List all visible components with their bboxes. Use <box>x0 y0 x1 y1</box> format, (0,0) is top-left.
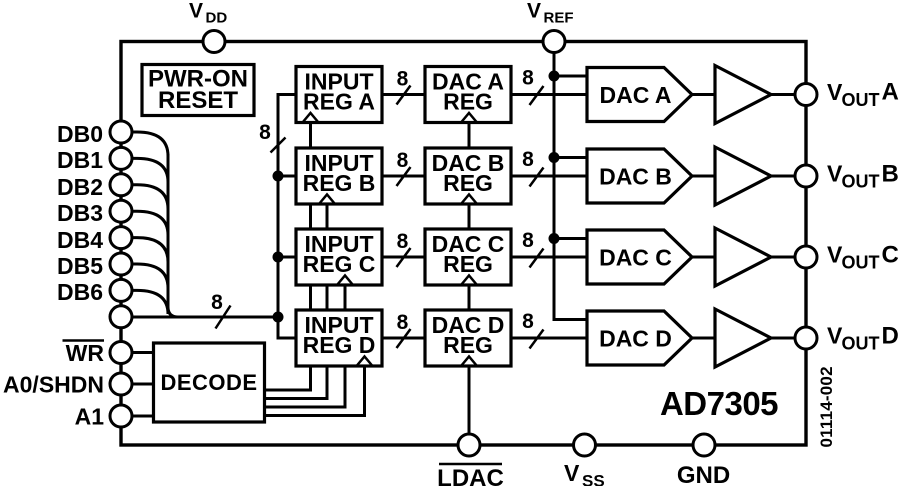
svg-text:B: B <box>882 161 899 188</box>
pin VOUTB <box>795 165 817 187</box>
svg-text:OUT: OUT <box>842 90 880 110</box>
clock pin DAC D REG <box>461 357 477 367</box>
svg-text:RESET: RESET <box>158 87 238 114</box>
svg-text:A: A <box>882 79 899 106</box>
wire 8-bit data bus from input pin <box>132 316 278 319</box>
bus width slash on data bus <box>216 306 231 329</box>
wire bus drop to INPUT REG D <box>278 317 296 338</box>
svg-text:LDAC: LDAC <box>437 465 504 486</box>
svg-text:8: 8 <box>522 310 534 333</box>
wire bus branch to INPUT REG B <box>278 175 296 178</box>
wire DB3 to data bus <box>132 211 168 235</box>
clock pin DAC C REG <box>461 276 477 286</box>
pin A1 <box>110 405 132 427</box>
pin VREF <box>543 31 565 53</box>
pin DB3 <box>110 200 132 222</box>
svg-text:REG: REG <box>443 89 493 115</box>
bus slash INPUT REG D to DAC D REG <box>397 329 411 348</box>
pin DB5 <box>110 253 132 275</box>
wire data-bus vertical drop <box>168 154 178 317</box>
svg-text:OUT: OUT <box>842 253 880 273</box>
svg-text:DB5: DB5 <box>57 253 103 279</box>
clock pin INPUT REG D <box>357 357 373 367</box>
wire VREF vertical net <box>554 42 587 320</box>
node VREF junction at DAC A <box>549 71 560 82</box>
pin DB1 <box>110 147 132 169</box>
svg-text:DB0: DB0 <box>57 121 103 147</box>
svg-text:REG A: REG A <box>303 89 375 115</box>
svg-text:8: 8 <box>259 121 271 144</box>
svg-text:DB2: DB2 <box>57 174 103 200</box>
svg-text:AD7305: AD7305 <box>660 385 778 422</box>
wire VREF branch to DAC C <box>554 237 587 240</box>
pin VOUTC <box>795 246 817 268</box>
bus width slash on riser <box>271 138 286 153</box>
wire LDAC riser to DAC REG clocks <box>468 123 471 446</box>
svg-text:V: V <box>189 0 203 23</box>
wire DAC B REG to DAC B <box>511 175 587 178</box>
svg-text:REG: REG <box>443 332 493 358</box>
register U2 INPUT REG B <box>296 148 382 204</box>
wire DB6 to data bus <box>132 290 168 314</box>
pin DB7 unlabeled <box>110 306 132 328</box>
bus slash INPUT REG B to DAC B REG <box>397 167 411 186</box>
clock pin INPUT REG C <box>337 276 353 286</box>
bus slash DAC B REG to DAC B <box>530 168 544 187</box>
wire INPUT REG B to DAC B REG <box>382 175 425 178</box>
wire VREF branch to DAC B <box>554 156 587 159</box>
wire WR pin to DECODE <box>132 351 154 354</box>
decoder block DECODE <box>154 343 265 422</box>
pin GND <box>693 434 715 456</box>
wire DAC D to buffer D <box>692 337 715 340</box>
wire DAC D REG to DAC D <box>511 337 587 340</box>
register U8 DAC D REG <box>425 310 511 366</box>
wire DECODE clock out to INPUT REG A <box>265 123 311 391</box>
svg-text:V: V <box>527 0 541 23</box>
bus slash DAC A REG to DAC A <box>530 86 544 105</box>
wire DB5 to data bus <box>132 264 168 288</box>
svg-text:REG D: REG D <box>303 332 376 358</box>
svg-text:8: 8 <box>397 230 409 253</box>
wire DAC B to buffer B <box>692 175 715 178</box>
svg-text:8: 8 <box>522 229 534 252</box>
wire DB2 to data bus <box>132 185 168 209</box>
svg-text:8: 8 <box>397 311 409 334</box>
svg-text:REG C: REG C <box>303 251 376 277</box>
pin VDD <box>203 31 225 53</box>
wire DB1 to data bus <box>132 158 168 182</box>
wire VREF branch to DAC A <box>554 75 587 78</box>
svg-text:DD: DD <box>206 10 228 27</box>
wire bus riser up to INPUT REG A <box>278 95 296 318</box>
svg-text:DAC B: DAC B <box>599 164 672 190</box>
pin DB6 <box>110 279 132 301</box>
wire A0/SHDN pin to DECODE <box>132 383 154 386</box>
svg-text:DAC C: DAC C <box>599 245 672 271</box>
pin VOUTD <box>795 327 817 349</box>
svg-text:GND: GND <box>677 462 730 486</box>
svg-text:REG B: REG B <box>303 170 376 196</box>
svg-text:REG: REG <box>443 251 493 277</box>
wire buffer C to VOUTC pin <box>771 256 795 259</box>
clock pin DAC B REG <box>461 195 477 205</box>
wire DAC A to buffer A <box>692 93 715 96</box>
svg-text:8: 8 <box>397 149 409 172</box>
wire DB0 to data bus <box>132 132 168 156</box>
pin DB0 <box>110 121 132 143</box>
bus slash DAC C REG to DAC C <box>530 249 544 268</box>
wire DECODE clock out to INPUT REG C <box>265 285 346 407</box>
pin VOUTA <box>795 84 817 106</box>
pin VSS <box>574 434 596 456</box>
op-amp buffer A <box>715 66 771 124</box>
bus slash INPUT REG C to DAC C REG <box>397 248 411 267</box>
wire DECODE clock out to INPUT REG D <box>265 366 365 416</box>
wire DB4 to data bus <box>132 238 168 262</box>
node bus junction at bus corner <box>273 312 284 323</box>
svg-text:DB1: DB1 <box>57 147 103 173</box>
node VREF junction at DAC C <box>549 233 560 244</box>
register U1 INPUT REG A <box>296 67 382 123</box>
node bus junction at INPUT REG C <box>273 252 284 263</box>
clock pin INPUT REG B <box>319 195 335 205</box>
wire INPUT REG C to DAC C REG <box>382 256 425 259</box>
svg-text:8: 8 <box>397 68 409 91</box>
svg-text:C: C <box>882 242 899 269</box>
svg-text:D: D <box>882 323 899 350</box>
register U6 DAC B REG <box>425 148 511 204</box>
power-on reset block <box>142 65 254 116</box>
pin LDAC <box>458 434 480 456</box>
wire buffer B to VOUTB pin <box>771 175 795 178</box>
svg-text:DB4: DB4 <box>57 227 103 253</box>
register U7 DAC C REG <box>425 229 511 285</box>
wire INPUT REG D to DAC D REG <box>382 337 425 340</box>
node VREF junction at DAC B <box>549 152 560 163</box>
svg-text:8: 8 <box>522 67 534 90</box>
wire INPUT REG A to DAC A REG <box>382 93 425 96</box>
node bus junction at INPUT REG B <box>273 171 284 182</box>
svg-text:8: 8 <box>211 291 223 314</box>
wire DAC C to buffer C <box>692 256 715 259</box>
svg-text:8: 8 <box>522 148 534 171</box>
op-amp buffer D <box>715 309 771 367</box>
svg-text:01114-002: 01114-002 <box>817 366 836 447</box>
register U3 INPUT REG C <box>296 229 382 285</box>
svg-text:A0/SHDN: A0/SHDN <box>3 372 104 398</box>
wire DAC A REG to DAC A <box>511 93 587 96</box>
op-amp buffer B <box>715 147 771 205</box>
pin DB4 <box>110 227 132 249</box>
wire A1 pin to DECODE <box>132 415 154 418</box>
clock pin DAC A REG <box>461 113 477 123</box>
svg-text:DECODE: DECODE <box>160 370 257 395</box>
svg-text:OUT: OUT <box>842 172 880 192</box>
svg-text:DAC A: DAC A <box>600 82 672 108</box>
converter DAC C <box>587 230 692 284</box>
clock pin INPUT REG A <box>303 113 319 123</box>
svg-text:DAC D: DAC D <box>599 326 672 352</box>
svg-text:REF: REF <box>544 10 574 27</box>
chip body outline <box>121 42 806 446</box>
pin A0/SHDN <box>110 373 132 395</box>
svg-text:SS: SS <box>582 472 605 486</box>
wire DAC C REG to DAC C <box>511 256 587 259</box>
svg-text:DB6: DB6 <box>57 279 103 305</box>
wire bus branch to INPUT REG C <box>278 256 296 259</box>
svg-text:WR: WR <box>66 340 105 366</box>
svg-text:REG: REG <box>443 170 493 196</box>
wire buffer D to VOUTD pin <box>771 337 795 340</box>
wire DECODE clock out to INPUT REG B <box>265 204 328 399</box>
pin DB2 <box>110 174 132 196</box>
bus slash DAC D REG to DAC D <box>530 330 544 349</box>
svg-text:DB3: DB3 <box>57 200 103 226</box>
op-amp buffer C <box>715 228 771 286</box>
svg-text:OUT: OUT <box>842 334 880 354</box>
svg-text:V: V <box>564 460 580 486</box>
bus slash INPUT REG A to DAC A REG <box>397 86 411 105</box>
svg-text:A1: A1 <box>75 404 105 430</box>
converter DAC B <box>587 149 692 203</box>
wire buffer A to VOUTA pin <box>771 93 795 96</box>
converter DAC D <box>587 311 692 365</box>
converter DAC A <box>587 68 692 122</box>
register U5 DAC A REG <box>425 67 511 123</box>
register U4 INPUT REG D <box>296 310 382 366</box>
pin WR <box>110 342 132 364</box>
